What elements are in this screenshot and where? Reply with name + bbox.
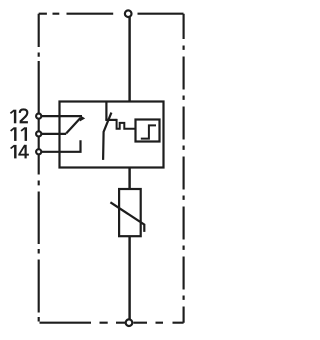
wire: terminal 14 contact (L-shape): [41, 140, 81, 152]
monitoring square: [136, 120, 160, 142]
label 12: [10, 109, 28, 123]
contact arm arrowhead: [80, 116, 85, 122]
trip linkage step line: [117, 119, 135, 129]
terminal 12 circle: [36, 114, 41, 119]
terminal 11 circle: [36, 131, 41, 136]
disconnector stem: [105, 102, 107, 121]
terminal 14 circle: [36, 149, 41, 154]
label 11: [11, 127, 26, 141]
varistor RV1 body: [119, 189, 141, 236]
module box U1: [60, 102, 164, 168]
terminal top (circle): [125, 10, 132, 17]
disconnector blade with break slash: [103, 113, 111, 160]
terminal bottom (circle): [126, 319, 133, 326]
disconnector T-bar: [105, 119, 116, 121]
enclosure border top edge (dash-dot): [39, 13, 184, 15]
varistor diagonal stroke with tail: [110, 202, 144, 232]
wire: top terminal to module box: [128, 17, 130, 101]
wire: terminal 11 to contact arm: [41, 133, 66, 135]
changeover contact arm (from 11 up to 12): [66, 118, 80, 133]
wire: terminal 12 to contact: [41, 115, 82, 117]
step symbol inside monitoring square: [141, 125, 156, 138]
wire: varistor to bottom terminal: [128, 237, 130, 320]
enclosure border right edge (dash-dot): [183, 14, 185, 323]
wire: module box to varistor: [128, 167, 130, 189]
label 14: [11, 145, 29, 159]
enclosure border bottom edge (dash-dot): [40, 322, 184, 324]
enclosure border left edge (dash-dot): [38, 14, 40, 322]
